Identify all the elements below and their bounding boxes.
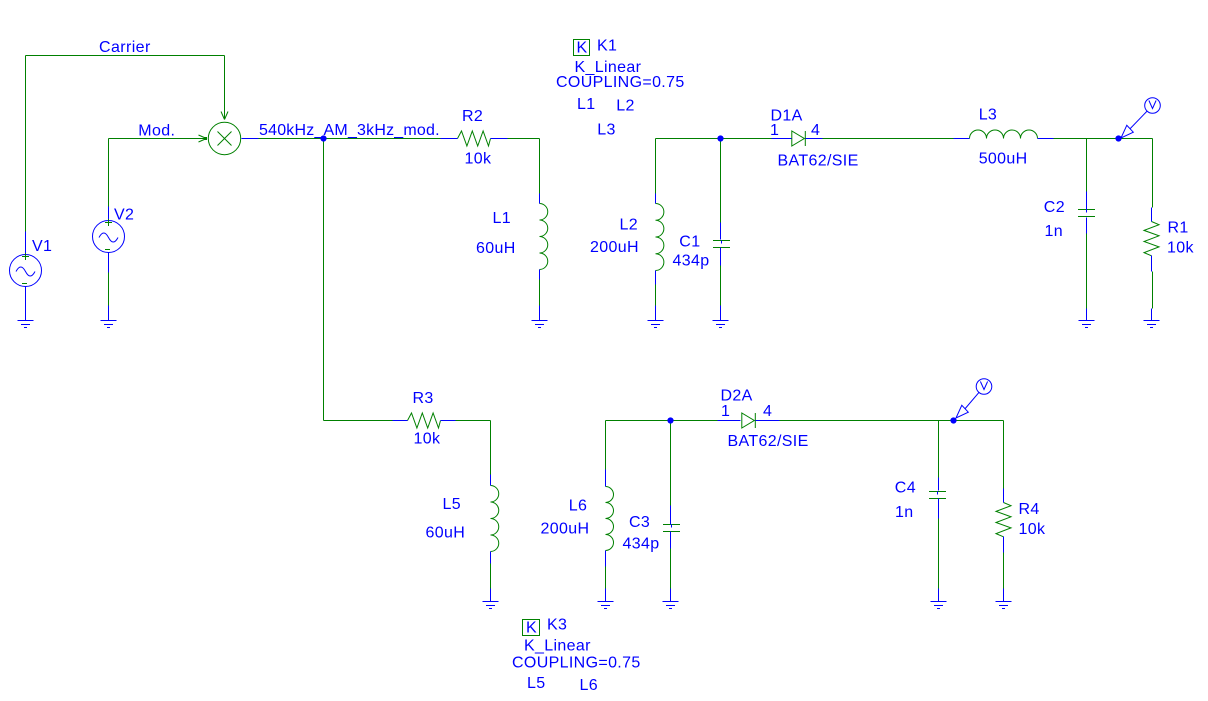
svg-text:V2: V2 xyxy=(114,207,134,224)
svg-text:Carrier: Carrier xyxy=(99,39,151,56)
svg-text:K3: K3 xyxy=(547,617,567,634)
svg-text:L1: L1 xyxy=(577,96,596,113)
svg-text:200uH: 200uH xyxy=(590,239,639,256)
svg-text:L6: L6 xyxy=(569,497,588,514)
svg-text:K1: K1 xyxy=(597,38,617,55)
svg-text:1n: 1n xyxy=(895,504,914,521)
svg-text:K_Linear: K_Linear xyxy=(524,638,591,655)
svg-text:R2: R2 xyxy=(462,108,483,125)
svg-text:10k: 10k xyxy=(1167,240,1194,257)
svg-text:60uH: 60uH xyxy=(476,240,516,257)
svg-text:BAT62/SIE: BAT62/SIE xyxy=(728,433,809,450)
svg-text:COUPLING=0.75: COUPLING=0.75 xyxy=(512,655,641,672)
svg-text:L1: L1 xyxy=(493,210,512,227)
svg-text:Mod.: Mod. xyxy=(138,122,175,139)
svg-text:1n: 1n xyxy=(1045,223,1064,240)
svg-text:10k: 10k xyxy=(465,151,492,168)
svg-text:60uH: 60uH xyxy=(426,524,466,541)
svg-text:4: 4 xyxy=(811,122,820,139)
svg-text:R3: R3 xyxy=(413,390,434,407)
svg-text:BAT62/SIE: BAT62/SIE xyxy=(778,152,859,169)
svg-text:10k: 10k xyxy=(414,431,441,448)
svg-text:C4: C4 xyxy=(895,479,916,496)
svg-text:L6: L6 xyxy=(580,677,599,694)
svg-text:500uH: 500uH xyxy=(979,151,1028,168)
svg-text:L2: L2 xyxy=(620,216,639,233)
svg-text:C1: C1 xyxy=(679,233,700,250)
svg-text:R4: R4 xyxy=(1019,501,1040,518)
svg-text:R1: R1 xyxy=(1168,220,1189,237)
svg-text:434p: 434p xyxy=(673,253,710,270)
svg-text:434p: 434p xyxy=(623,535,660,552)
svg-text:C3: C3 xyxy=(629,514,650,531)
svg-text:COUPLING=0.75: COUPLING=0.75 xyxy=(556,74,685,91)
svg-text:C2: C2 xyxy=(1044,199,1065,216)
svg-text:L3: L3 xyxy=(597,122,616,139)
svg-text:540kHz_AM_3kHz_mod.: 540kHz_AM_3kHz_mod. xyxy=(259,122,440,139)
svg-text:4: 4 xyxy=(763,403,772,420)
svg-text:K: K xyxy=(526,620,537,637)
svg-text:1: 1 xyxy=(721,403,730,420)
svg-text:L5: L5 xyxy=(443,496,462,513)
svg-text:V1: V1 xyxy=(32,238,52,255)
svg-text:L3: L3 xyxy=(979,107,998,124)
svg-text:K: K xyxy=(577,40,588,57)
svg-text:L5: L5 xyxy=(527,675,546,692)
svg-text:200uH: 200uH xyxy=(541,520,590,537)
svg-text:1: 1 xyxy=(770,122,779,139)
svg-text:L2: L2 xyxy=(616,98,635,115)
svg-text:10k: 10k xyxy=(1019,521,1046,538)
